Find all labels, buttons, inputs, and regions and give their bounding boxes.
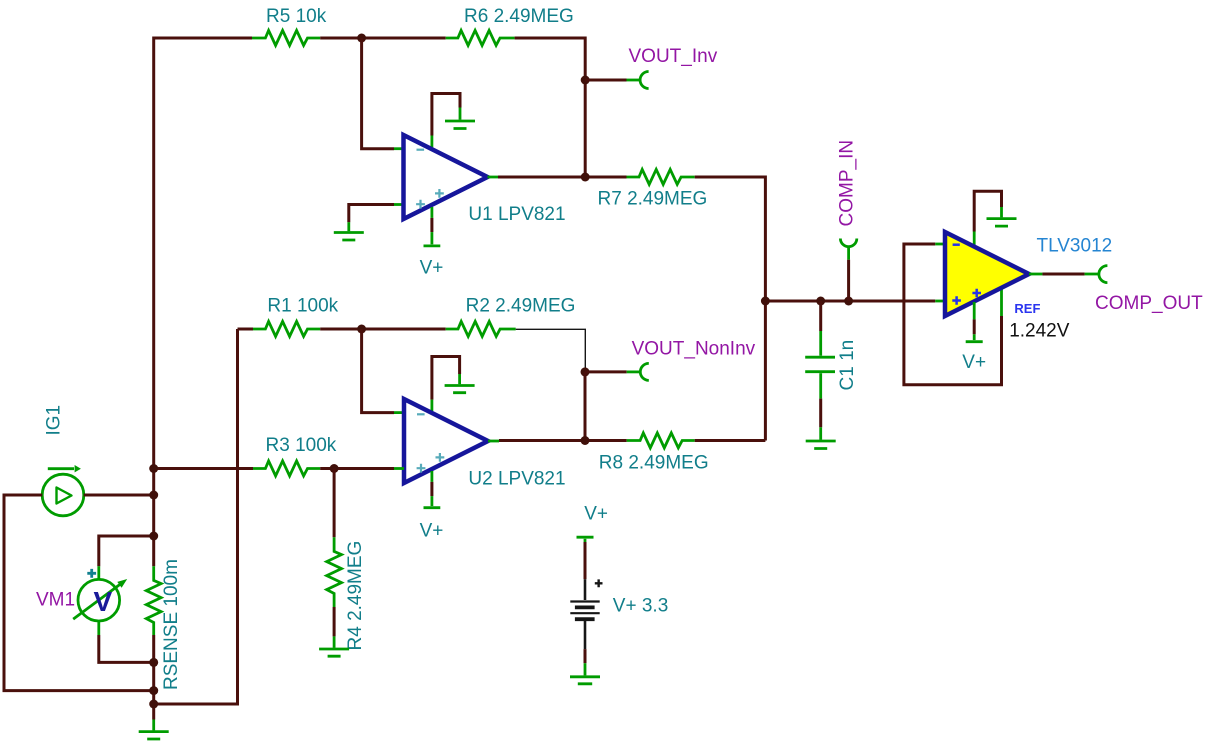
comparator plus marker supply [972,289,981,298]
wire R1 left corner vertical [154,329,238,704]
wire R6 to VOUT_Inv corner vertical [515,38,586,177]
capacitor C1 [805,331,835,399]
wire U1 non-inverting input to ground bend [349,205,394,223]
resistor R5 [252,30,320,45]
wire between R5 and R6 [320,37,446,40]
wire U2 inverting input from R1/R2 node [362,329,394,413]
pin U2 inverting input lead [394,411,404,414]
svg-text:R4 2.49MEG: R4 2.49MEG [345,541,366,651]
wire VOUT_NonInv stub [585,370,627,373]
node VM1 top junction [149,532,158,541]
terminal COMP_OUT [1085,266,1108,283]
V+ jumper under U1 [424,232,441,246]
pin VM1 bottom lead [97,621,100,635]
wire R1 row left stub [238,328,254,331]
op-amp U2 [404,399,488,483]
wire battery top [584,542,587,579]
resistor RSENSE [146,566,161,635]
node R3 row junction [149,464,158,473]
IG1 direction arrow [48,465,81,472]
terminal VOUT_NonInv [627,363,649,380]
wire COMP_IN stub [847,260,850,301]
svg-text:V+: V+ [420,258,444,279]
wire IG1 left loop [4,495,154,691]
svg-text:R5 10k: R5 10k [266,6,327,27]
ground at U2 top supply [445,374,475,393]
node VOUT_Inv junction [581,76,590,85]
U1 minus marker [417,149,425,151]
comparator U3 TLV3012 [945,232,1029,316]
svg-text:U1 LPV821: U1 LPV821 [468,204,565,225]
ground under C1 [806,427,836,448]
svg-text:V: V [93,586,112,617]
ground at comparator top [987,207,1017,226]
svg-text:RSENSE 100m: RSENSE 100m [161,559,182,690]
U2 minus marker [417,413,425,415]
U1 plus marker input [416,200,425,209]
wire R3 to U2 plus input [320,467,394,470]
svg-text:U2 LPV821: U2 LPV821 [468,469,565,490]
U1 plus marker supply [435,189,444,198]
current source IG1 [42,474,84,516]
svg-text:R1 100k: R1 100k [267,296,338,317]
wire C1 bottom [819,399,822,428]
resistor R7 [627,169,695,184]
wire IG1 right [84,494,154,497]
pin comparator output lead [1029,273,1042,276]
resistor R1 [253,321,320,336]
svg-text:VM1: VM1 [36,590,75,611]
node junction R5/R6 [357,34,366,43]
comparator minus marker [953,243,960,246]
wire C1 top [819,301,822,331]
pin comparator plus lead [935,300,945,303]
node mid bus junction [761,297,770,306]
pin comparator V+ lead [973,302,976,319]
wire R8 to right bus [695,439,766,442]
node VM1 bottom junction [149,658,158,667]
wire U1 inverting input from R5/R6 node [362,38,394,149]
pin U2 output lead [488,440,499,443]
ground under battery [570,663,600,684]
wire battery bottom [584,649,587,663]
wire R7 to right bus [695,176,766,179]
resistor R2 [446,321,516,336]
svg-text:C1 1n: C1 1n [837,340,858,391]
wire U2 V+ [430,482,433,496]
resistor R4 [327,537,342,607]
svg-text:VOUT_Inv: VOUT_Inv [629,46,718,67]
battery V1 [570,579,602,649]
pin comparator top supply lead [973,232,976,247]
svg-text:V+: V+ [420,521,444,542]
node left loop junction [149,686,158,695]
svg-text:COMP_OUT: COMP_OUT [1095,293,1203,314]
terminal VOUT_Inv [627,72,649,89]
wire comparator top supply bend [974,191,1001,231]
wire U1 top supply pin bend [432,94,460,136]
pin VM1 top lead [97,566,100,579]
wire right bus vertical [764,176,767,441]
wire U1 output to R7 [498,176,627,179]
svg-text:R7 2.49MEG: R7 2.49MEG [598,189,708,210]
wire U1 V+ [430,218,433,232]
terminal COMP_IN [840,239,856,260]
node IG1 right junction [149,491,158,500]
pin U2 top supply lead [430,400,433,411]
wire comparator output [1042,273,1084,276]
wire VOUT_Inv stub [585,79,626,82]
ground at U1 top supply [445,108,475,129]
node VOUT_NonInv junction [581,367,590,376]
wire left main vertical lower (below RSENSE to ground stem) [152,635,155,720]
svg-text:R3 100k: R3 100k [266,435,337,456]
svg-text:IG1: IG1 [44,405,65,436]
pin U1 top supply lead [430,136,433,148]
svg-text:R2 2.49MEG: R2 2.49MEG [466,296,576,317]
node junction R1/R2 [357,325,366,334]
wire U2 top supply pin bend [432,357,460,400]
comparator plus marker input [952,296,961,305]
ground main bottom [139,720,169,740]
wire between R1 and R2 [320,328,446,331]
svg-text:1.242V: 1.242V [1009,321,1070,342]
wire R2 to VOUT_NonInv thin black [516,329,586,372]
op-amp U1 [404,135,488,219]
wire U2 output to R8 [499,439,627,442]
wire VM1 bottom [99,635,154,662]
svg-text:COMP_IN: COMP_IN [837,140,858,227]
pin U2 V+ supply lead [430,471,433,482]
pin comparator REF lead [1000,289,1003,316]
pin comparator minus lead [935,243,945,246]
svg-text:TLV3012: TLV3012 [1037,236,1113,257]
pin U1 inverting input lead [394,147,404,150]
wire VM1 top [99,536,154,566]
voltmeter VM1 [73,579,127,621]
node C1 junction [816,297,825,306]
wire mid bus to comparator [765,300,935,303]
V+ jumper under U2 [424,496,441,508]
resistor R3 [253,461,320,476]
svg-text:V+ 3.3: V+ 3.3 [613,596,668,617]
node bottom right junction [149,700,158,709]
svg-text:V+: V+ [962,352,986,373]
wire VOUT_NonInv node down to U2 output row [584,372,587,441]
pin U1 non-inverting input lead [394,203,404,206]
resistor R6 [446,30,515,45]
node COMP_IN junction [844,297,853,306]
ground at U1 non-inverting input [334,222,364,240]
node U2 output junction [581,436,590,445]
VM1 plus marker [87,569,96,578]
battery V+ 3.3 jumper top [577,537,594,542]
pin U1 V+ supply lead [430,207,433,218]
ground under R4 [319,636,349,656]
pin U1 output lead [488,176,499,179]
node U1 output junction [581,173,590,182]
svg-text:R8 2.49MEG: R8 2.49MEG [599,452,709,473]
V+ jumper under comparator [966,334,983,341]
pin U2 non-inverting input lead [394,467,404,470]
resistor R8 [627,433,695,448]
node R3/R4 junction [330,464,339,473]
svg-text:REF: REF [1014,301,1040,316]
svg-text:R6 2.49MEG: R6 2.49MEG [464,6,574,27]
wire R4 top [333,469,336,538]
wire left main vertical upper (x=153.7 from top row to RSENSE) [152,37,155,567]
U2 plus marker supply [436,453,445,462]
wire R4 bottom [333,607,336,636]
wire comparator feedback box [904,244,1002,385]
svg-text:VOUT_NonInv: VOUT_NonInv [632,338,756,359]
wire R3 row from left vertical [154,467,253,470]
wire comparator V+ [973,319,976,334]
svg-text:V+: V+ [584,504,608,525]
wire top row left: from left vertical to R5 [154,37,252,40]
U2 plus marker input [417,464,426,473]
